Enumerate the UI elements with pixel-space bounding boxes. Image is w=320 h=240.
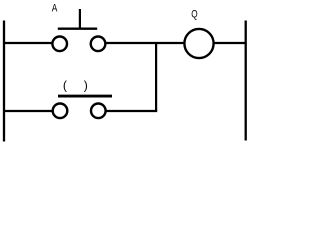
contact ( ) left terminal circle bbox=[53, 104, 68, 119]
right power rail bbox=[245, 21, 247, 141]
svg-text:A: A bbox=[52, 3, 58, 15]
contact A right terminal circle bbox=[91, 37, 106, 52]
pushbutton A actuator stem bbox=[79, 9, 81, 29]
left power rail bbox=[3, 21, 5, 142]
contact ( ) right terminal circle bbox=[91, 104, 106, 119]
contact A left terminal circle bbox=[52, 37, 67, 52]
wire: contact ( ) to branch vertical bbox=[105, 110, 157, 112]
wire: coil Q to right rail bbox=[214, 42, 246, 44]
wire: left rail to contact ( ) bbox=[4, 110, 53, 112]
contact ( ) bridge bar bbox=[58, 95, 112, 98]
svg-text:): ) bbox=[84, 79, 88, 93]
wire: contact A to coil Q (through branch node) bbox=[105, 42, 184, 44]
pushbutton A bridge bar bbox=[58, 28, 97, 30]
svg-text:(: ( bbox=[63, 79, 67, 93]
coil Q circle bbox=[184, 29, 213, 58]
branch wire: vertical from top rung down to second rung bbox=[155, 43, 157, 111]
wire: left rail to contact A bbox=[4, 42, 53, 44]
svg-text:Q: Q bbox=[191, 8, 198, 20]
